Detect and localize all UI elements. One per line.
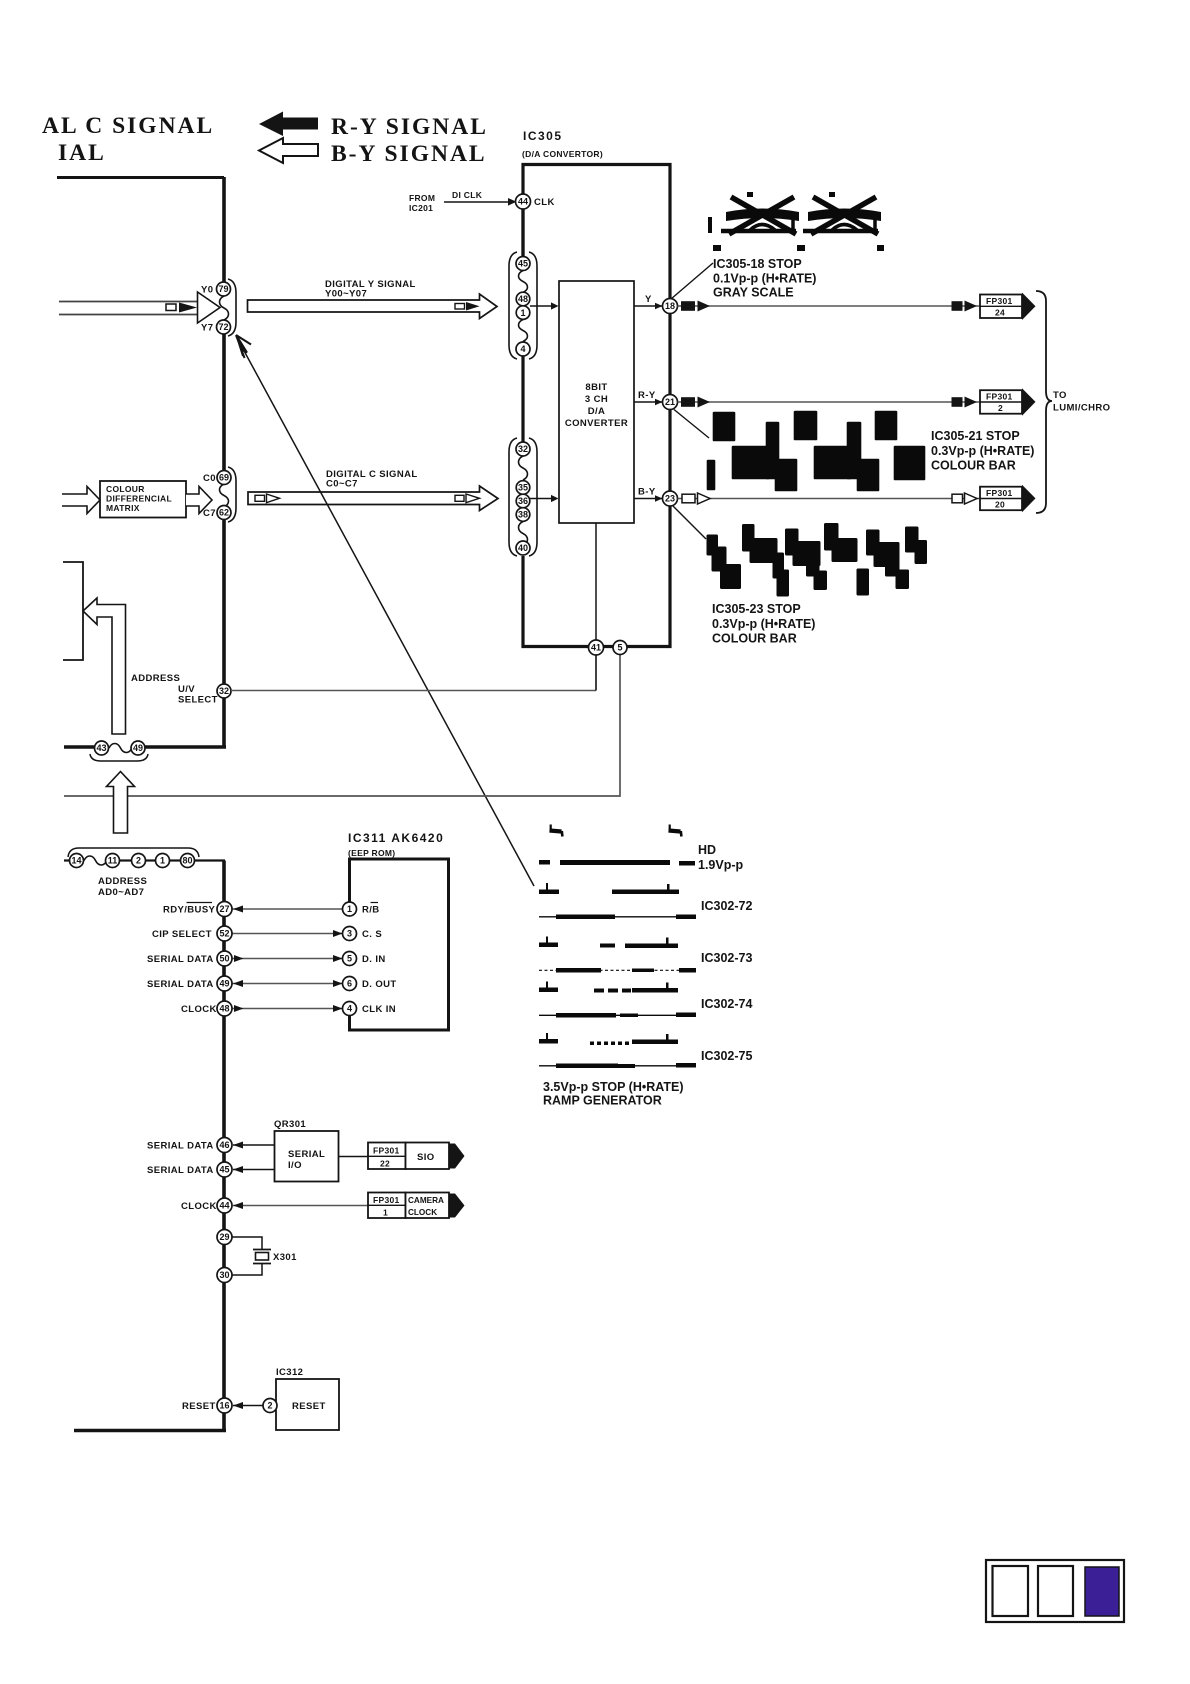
waveform IC302-72 lower trace: [539, 915, 696, 920]
label U/V SELECT: [178, 684, 218, 706]
svg-text:LUMI/CHRO: LUMI/CHRO: [1053, 403, 1110, 414]
svg-text:38: 38: [518, 510, 528, 520]
over-bracket for address pins: [68, 848, 199, 857]
wire SERIAL DATA 50 to D.IN 5: [232, 955, 343, 962]
pin 32 da: [516, 442, 530, 456]
svg-text:52: 52: [219, 929, 229, 939]
svg-text:CLK IN: CLK IN: [362, 1004, 396, 1015]
icon small box right on C bus: [455, 495, 464, 501]
pointer line pin21 to R-Y waveform: [674, 410, 709, 439]
pin 6 D.OUT: [343, 977, 397, 991]
caption IC302-74: [701, 997, 752, 1011]
svg-text:5: 5: [347, 954, 352, 964]
caption IC305-23 STOP 0.3Vp-p COLOUR BAR: [712, 602, 815, 646]
wire Y pin18 to FP301-24: [678, 305, 981, 307]
svg-text:43: 43: [96, 743, 106, 753]
wire RDY/BUSY 27 to R/B 1: [232, 906, 342, 913]
label RDY/BUSY: [163, 903, 216, 916]
caption IC302-73: [701, 951, 752, 965]
waveform photo B-Y colour bar: [708, 525, 926, 596]
svg-text:3 CH: 3 CH: [585, 394, 608, 405]
label DIGITAL Y SIGNAL Y00~Y07: [325, 279, 416, 300]
label TO LUMI/CHRO: [1053, 390, 1110, 414]
svg-text:4: 4: [347, 1004, 352, 1014]
svg-text:40: 40: [518, 543, 528, 553]
squiggle 32-35: [519, 456, 528, 480]
pin 2 address: [132, 854, 146, 868]
svg-text:48: 48: [219, 1004, 229, 1014]
svg-text:30: 30: [219, 1270, 229, 1280]
hollow arrow pointing up: [107, 772, 135, 834]
pin 14 address: [70, 854, 84, 868]
svg-text:SERIAL: SERIAL: [288, 1149, 325, 1160]
svg-text:SERIAL DATA: SERIAL DATA: [147, 1165, 214, 1176]
svg-text:COLOUR BAR: COLOUR BAR: [931, 459, 1016, 473]
legend arrow B-Y (hollow left arrow): [259, 138, 318, 163]
svg-text:SELECT: SELECT: [178, 695, 218, 706]
caption IC302-75: [701, 1049, 752, 1063]
wire from IC305 pin 5 down and left: [64, 655, 620, 796]
svg-text:CONVERTER: CONVERTER: [565, 418, 628, 429]
svg-text:D/A: D/A: [588, 406, 606, 417]
svg-text:IC305-21 STOP: IC305-21 STOP: [931, 429, 1020, 443]
label IC312: [276, 1367, 303, 1378]
wire pins to converter (Y input): [530, 302, 559, 309]
page indicator box 2: [1038, 1566, 1073, 1616]
waveform IC302-73 lower trace: [539, 968, 696, 973]
wire 80 to bus corner: [195, 859, 226, 861]
svg-text:44: 44: [518, 197, 528, 207]
label ADDRESS: [131, 673, 180, 684]
wire QR301 to FP301-22: [339, 1156, 369, 1158]
svg-text:5: 5: [617, 643, 622, 653]
pin 3 C.S: [343, 927, 383, 941]
waveform photo R-Y colour bar: [708, 412, 924, 490]
wire CLOCK 48 to CLK IN 4: [232, 1005, 343, 1012]
pin 45: [516, 257, 530, 271]
legend text (cropped) IAL: [58, 140, 106, 166]
IC302 block (cropped at left) top edge: [57, 176, 224, 179]
pointer line pin23 to B-Y waveform: [673, 506, 706, 539]
svg-text:SIO: SIO: [417, 1152, 435, 1163]
bracket for C0-C7 pin group: [228, 467, 236, 522]
svg-text:ADDRESS: ADDRESS: [98, 876, 147, 887]
icon filled tag+arrow after pin 18: [681, 301, 710, 312]
pin 1 address: [156, 854, 170, 868]
pin 27 RDY/BUSY: [217, 902, 232, 917]
svg-text:RDY/BUSY: RDY/BUSY: [163, 905, 216, 916]
svg-text:C7: C7: [203, 508, 216, 519]
caption IC305-21 STOP 0.3Vp-p COLOUR BAR: [931, 429, 1034, 473]
squiggle 38-40: [519, 522, 528, 546]
svg-text:IC302-72: IC302-72: [701, 899, 752, 913]
svg-text:C0~C7: C0~C7: [326, 479, 358, 490]
svg-text:IAL: IAL: [58, 140, 106, 166]
hollow arrow out of matrix box: [186, 487, 212, 514]
legend label R-Y SIGNAL: [331, 114, 488, 140]
svg-text:IC312: IC312: [276, 1367, 303, 1378]
svg-text:COLOUR: COLOUR: [106, 484, 145, 494]
hollow arrowhead of Y bus at IC302: [198, 292, 221, 323]
page indicator outer box: [986, 1560, 1124, 1622]
hollow arrow into matrix box: [62, 487, 100, 514]
crystal X301: [253, 1250, 297, 1264]
label FROM IC201: [409, 193, 435, 213]
caption 3.5Vp-p STOP RAMP GENERATOR: [543, 1080, 684, 1108]
svg-text:RAMP GENERATOR: RAMP GENERATOR: [543, 1094, 662, 1108]
squiggle between 14 and 11: [84, 856, 107, 865]
svg-text:SERIAL DATA: SERIAL DATA: [147, 1141, 214, 1152]
icon filled tag+arrow before FP301-2: [952, 397, 978, 408]
svg-text:CIP SELECT: CIP SELECT: [152, 929, 212, 940]
wire DI CLK into pin 44: [444, 198, 517, 206]
svg-text:CLOCK: CLOCK: [181, 1004, 217, 1015]
svg-text:2: 2: [267, 1401, 272, 1411]
pin 41: [589, 640, 604, 655]
pointer line pin18 to grayscale caption: [671, 263, 713, 299]
pin 21 R-Y out: [663, 395, 678, 410]
pin 80 address: [181, 854, 195, 868]
wire converter bottom to pin 41: [595, 523, 597, 641]
waveform IC302-75 upper trace: [539, 1033, 678, 1045]
pin 32 U/V select: [217, 684, 231, 698]
wire SERIAL DATA 49 to D.OUT 6: [232, 980, 343, 987]
pin 38: [516, 508, 530, 522]
wire R-Y out of converter: [634, 390, 663, 405]
bus arrow DIGITAL C SIGNAL: [248, 486, 498, 511]
pin 50 SERIAL DATA: [217, 951, 232, 966]
svg-text:1: 1: [347, 904, 352, 914]
page indicator box 1: [993, 1566, 1029, 1616]
IC311 eeprom box: [350, 859, 449, 1030]
svg-text:1.9Vp-p: 1.9Vp-p: [698, 858, 744, 872]
IC302 block right edge (upper segments with pin gaps): [222, 177, 226, 747]
svg-text:45: 45: [518, 259, 528, 269]
partial box bracket left: [63, 562, 83, 660]
legend text DIGITAL C SIGNAL (cropped): [42, 113, 214, 139]
pin C0 69: [203, 471, 231, 485]
svg-text:ADDRESS: ADDRESS: [131, 673, 180, 684]
pin 45 SERIAL DATA: [217, 1162, 232, 1177]
waveform IC302-74 lower trace: [539, 1013, 696, 1018]
svg-text:(EEP ROM): (EEP ROM): [348, 848, 395, 858]
svg-text:IC302-73: IC302-73: [701, 951, 752, 965]
svg-text:IC311 AK6420: IC311 AK6420: [348, 831, 444, 845]
icon filled arrow on Y bus: [179, 303, 197, 313]
waveform photo gray scale (crossed staircases): [710, 192, 884, 251]
svg-text:69: 69: [219, 473, 229, 483]
svg-text:CLK: CLK: [534, 197, 555, 208]
IC312 reset box: [276, 1379, 339, 1430]
svg-text:AD0~AD7: AD0~AD7: [98, 887, 144, 898]
pin 23 B-Y out: [663, 491, 678, 506]
wire R-Y pin21 to FP301-2: [678, 401, 981, 403]
svg-text:36: 36: [518, 496, 528, 506]
svg-text:QR301: QR301: [274, 1119, 306, 1130]
svg-text:FP301: FP301: [986, 296, 1013, 306]
wire stub left of pin 14: [64, 859, 70, 861]
pin 44 CLOCK: [217, 1198, 232, 1213]
svg-text:AL C SIGNAL: AL C SIGNAL: [42, 113, 214, 139]
svg-text:23: 23: [665, 494, 675, 504]
bracket left of pin group 32-40: [509, 438, 517, 556]
svg-text:6: 6: [347, 979, 352, 989]
waveform IC302-75 lower trace: [539, 1063, 696, 1068]
pin 52 CIP SELECT: [217, 926, 232, 941]
wire QR301 to pin 45: [233, 1166, 274, 1173]
label DI CLK: [452, 190, 483, 200]
icon filled tag+arrow after pin 21: [681, 397, 710, 408]
label ADDRESS AD0~AD7: [98, 876, 147, 898]
pin 30: [217, 1268, 232, 1283]
waveform IC302-73 upper trace: [539, 937, 678, 949]
svg-text:FP301: FP301: [373, 1146, 400, 1156]
svg-text:20: 20: [995, 500, 1005, 510]
svg-text:1: 1: [160, 856, 165, 866]
wire QR301 to pin 46: [233, 1142, 274, 1149]
squiggle between pins 79 and 72: [220, 296, 229, 320]
svg-text:46: 46: [219, 1140, 229, 1150]
wire 2-1: [146, 859, 156, 861]
svg-text:24: 24: [995, 308, 1005, 318]
bracket for Y0-Y7 pin group: [228, 279, 236, 336]
pin 29: [217, 1230, 232, 1245]
svg-text:TO: TO: [1053, 390, 1067, 401]
svg-text:GRAY SCALE: GRAY SCALE: [713, 286, 794, 300]
svg-text:0.1Vp-p (H•RATE): 0.1Vp-p (H•RATE): [713, 272, 816, 286]
wire CIP SELECT 52 to C.S 3: [232, 930, 343, 937]
connector FP301 pin 1 CAMERA CLOCK: [368, 1193, 465, 1219]
svg-text:HD: HD: [698, 843, 716, 857]
svg-text:11: 11: [108, 856, 118, 866]
svg-text:B-Y: B-Y: [638, 487, 656, 498]
label DIGITAL C SIGNAL C0~C7: [326, 469, 418, 490]
pin 36: [516, 494, 530, 508]
svg-text:48: 48: [518, 294, 528, 304]
pin 48 CLOCK: [217, 1001, 232, 1016]
icon hollow arrow right on C bus: [466, 494, 480, 503]
bracket left of pin group 45-4: [509, 252, 517, 359]
waveform HD trace: [539, 860, 695, 866]
svg-text:44: 44: [219, 1201, 229, 1211]
svg-text:B-Y SIGNAL: B-Y SIGNAL: [331, 141, 487, 167]
waveform IC302-74 upper trace: [539, 982, 678, 993]
svg-text:3.5Vp-p STOP (H•RATE): 3.5Vp-p STOP (H•RATE): [543, 1080, 684, 1094]
label CLOCK: [181, 1004, 217, 1015]
ADDRESS bent hollow arrow pointing left: [83, 598, 126, 734]
svg-text:I/O: I/O: [288, 1160, 302, 1171]
wire B-Y out of converter: [634, 487, 663, 502]
svg-text:U/V: U/V: [178, 684, 195, 695]
svg-text:COLOUR BAR: COLOUR BAR: [712, 632, 797, 646]
pin 18 Y out: [663, 299, 678, 314]
IC302 lower bus vertical: [222, 861, 226, 1431]
svg-text:RESET: RESET: [292, 1401, 326, 1412]
svg-text:0.3Vp-p (H•RATE): 0.3Vp-p (H•RATE): [931, 444, 1034, 458]
wire B-Y pin23 to FP301-20: [678, 498, 981, 500]
icon small box on Y bus arrow: [455, 304, 465, 310]
waveform HD sync hooks: [550, 825, 682, 837]
waveform IC302-72 upper trace: [539, 883, 679, 894]
pin 40: [516, 541, 530, 555]
IC302 block bottom edge: [64, 745, 226, 749]
svg-text:DI CLK: DI CLK: [452, 190, 483, 200]
svg-text:29: 29: [219, 1232, 229, 1242]
svg-text:IC201: IC201: [409, 203, 433, 213]
svg-text:C0: C0: [203, 473, 216, 484]
svg-text:79: 79: [218, 284, 228, 294]
wire Y bus into IC302 (two rails): [59, 302, 197, 315]
svg-text:R-Y SIGNAL: R-Y SIGNAL: [331, 114, 488, 140]
pin 1: [516, 306, 530, 320]
label RESET: [182, 1401, 216, 1412]
svg-text:Y00~Y07: Y00~Y07: [325, 289, 367, 300]
label QR301: [274, 1119, 306, 1130]
wire pin 29 to crystal: [232, 1237, 262, 1249]
svg-text:SERIAL DATA: SERIAL DATA: [147, 979, 214, 990]
svg-text:27: 27: [219, 904, 229, 914]
page indicator box 3 current (purple): [1085, 1567, 1119, 1616]
svg-text:49: 49: [219, 979, 229, 989]
pin 35: [516, 481, 530, 495]
pin 2 reset out: [263, 1399, 277, 1413]
label SERIAL DATA: [147, 979, 214, 990]
svg-text:32: 32: [219, 686, 229, 696]
svg-text:IC305: IC305: [523, 129, 563, 143]
label CIP SELECT: [152, 929, 212, 940]
pin 5 D.IN: [343, 952, 386, 966]
caption HD 1.9Vp-p: [698, 843, 744, 872]
wire pins to converter (C input): [530, 495, 559, 502]
IC305 box outline: [523, 165, 670, 647]
pin 16 RESET: [217, 1398, 232, 1413]
svg-text:80: 80: [182, 856, 192, 866]
squiggle 1-4: [519, 320, 528, 342]
svg-text:62: 62: [219, 508, 229, 518]
pin 43: [95, 741, 109, 755]
pin 46 SERIAL DATA: [217, 1138, 232, 1153]
svg-text:8BIT: 8BIT: [585, 382, 607, 393]
svg-text:C. S: C. S: [362, 929, 382, 940]
svg-text:IC302-74: IC302-74: [701, 997, 752, 1011]
wire 11-2: [120, 859, 132, 861]
under-bracket for 43-49: [90, 754, 148, 761]
svg-text:35: 35: [518, 483, 528, 493]
icon hollow arrow left on C bus: [267, 494, 280, 503]
svg-text:IC305-18 STOP: IC305-18 STOP: [713, 257, 802, 271]
svg-text:D. OUT: D. OUT: [362, 979, 397, 990]
svg-text:2: 2: [998, 403, 1003, 413]
svg-text:Y7: Y7: [201, 323, 213, 334]
icon filled arrow on Y bus arrow: [466, 302, 480, 311]
svg-text:1: 1: [520, 308, 525, 318]
label IC305 (D/A CONVERTOR): [522, 129, 603, 159]
svg-text:21: 21: [665, 397, 675, 407]
connector FP301 pin 2: [980, 388, 1036, 416]
label SERIAL DATA: [147, 1141, 214, 1152]
svg-text:FP301: FP301: [986, 488, 1013, 498]
svg-text:22: 22: [380, 1159, 390, 1169]
pin 1 R/B: [343, 902, 380, 916]
converter inner box 8BIT 3CH D/A: [559, 281, 634, 523]
icon hollow tag+arrow before FP301-20: [952, 493, 977, 504]
pin 48: [516, 292, 530, 306]
svg-text:2: 2: [136, 856, 141, 866]
wire crystal to pin 30: [232, 1264, 262, 1276]
wire 1-80: [170, 859, 181, 861]
squiggle 45-48: [519, 271, 528, 293]
svg-text:Y0: Y0: [201, 285, 213, 296]
svg-text:X301: X301: [273, 1252, 297, 1263]
serial I/O box QR301: [275, 1131, 339, 1182]
wire IC312 pin2 to pin 16: [233, 1402, 263, 1409]
legend label B-Y SIGNAL: [331, 141, 487, 167]
svg-text:0.3Vp-p (H•RATE): 0.3Vp-p (H•RATE): [712, 617, 815, 631]
pin 44 CLK: [516, 194, 555, 209]
svg-text:IC302-75: IC302-75: [701, 1049, 752, 1063]
svg-text:FROM: FROM: [409, 193, 435, 203]
svg-text:4: 4: [520, 344, 525, 354]
svg-text:14: 14: [71, 856, 81, 866]
pin Y0 79: [201, 282, 231, 296]
wire from IC305 pin 41 down: [595, 655, 597, 691]
label SERIAL DATA: [147, 1165, 214, 1176]
colour differencial matrix box: [100, 481, 186, 518]
wire FP301-1 to pin 44: [233, 1202, 368, 1209]
svg-text:45: 45: [219, 1165, 229, 1175]
icon hollow tag+arrow after pin 23: [682, 493, 710, 504]
label SERIAL DATA: [147, 954, 214, 965]
pin Y7 72: [201, 320, 231, 334]
label IC311 AK6420 (EEP ROM): [348, 831, 444, 858]
svg-text:CAMERA: CAMERA: [408, 1196, 444, 1205]
svg-text:R/B: R/B: [362, 905, 380, 916]
svg-text:RESET: RESET: [182, 1401, 216, 1412]
svg-text:CLOCK: CLOCK: [408, 1208, 437, 1217]
wire Y out of converter: [634, 294, 663, 309]
pin 5: [613, 641, 627, 655]
connector FP301 pin 20: [980, 485, 1036, 513]
svg-text:1: 1: [383, 1208, 388, 1218]
pin C7 62: [203, 506, 231, 520]
bus arrow DIGITAL Y SIGNAL: [248, 294, 498, 319]
svg-text:41: 41: [591, 643, 601, 653]
svg-text:72: 72: [218, 322, 228, 332]
label CLOCK: [181, 1201, 217, 1212]
caption IC305-18 STOP 0.1Vp-p GRAY SCALE: [713, 257, 816, 300]
caption IC302-72: [701, 899, 752, 913]
wire U/V select to IC305 pin 41: [231, 690, 596, 692]
connector FP301 pin 24: [980, 293, 1036, 321]
curly brace to lumi/chro: [1036, 291, 1052, 513]
svg-text:IC305-23 STOP: IC305-23 STOP: [712, 602, 801, 616]
icon small box on Y bus: [166, 304, 176, 311]
svg-text:FP301: FP301: [986, 392, 1013, 402]
svg-text:50: 50: [219, 954, 229, 964]
icon small box left on C bus: [255, 495, 265, 501]
svg-text:(D/A CONVERTOR): (D/A CONVERTOR): [522, 149, 603, 159]
legend arrow R-Y (filled left arrow): [259, 112, 318, 137]
svg-text:16: 16: [219, 1401, 229, 1411]
svg-text:DIFFERENCIAL: DIFFERENCIAL: [106, 494, 172, 504]
svg-text:R-Y: R-Y: [638, 390, 656, 401]
svg-text:49: 49: [133, 743, 143, 753]
diagonal pointer line to pin Y7: [236, 335, 534, 886]
pin 49: [131, 741, 145, 755]
pin 4: [516, 342, 530, 356]
svg-text:SERIAL DATA: SERIAL DATA: [147, 954, 214, 965]
svg-text:MATRIX: MATRIX: [106, 503, 140, 513]
